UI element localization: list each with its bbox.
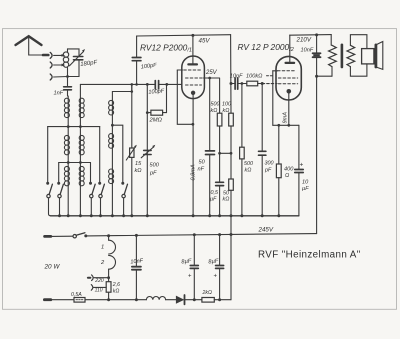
- svg-text:µF: µF: [210, 197, 217, 203]
- svg-text:25V: 25V: [205, 70, 218, 76]
- switch S5: [121, 182, 124, 185]
- svg-text:0,9mA: 0,9mA: [191, 164, 197, 180]
- node screen U1: [208, 77, 211, 80]
- capacitor 10µF: [298, 125, 300, 169]
- svg-text:kΩ: kΩ: [211, 108, 218, 114]
- svg-text:9mA: 9mA: [283, 112, 289, 124]
- capacitor 100pF feedback: [136, 36, 138, 57]
- choke coil: [146, 297, 165, 300]
- tap 110V: [91, 285, 93, 291]
- antenna coil L1: [67, 49, 69, 52]
- resistor 500kΩ grid leak: [241, 84, 243, 148]
- svg-text:110: 110: [95, 288, 103, 294]
- node ant junction: [66, 75, 69, 78]
- potentiometer 15kΩ: [131, 84, 133, 215]
- wire grid3 elbow U2: [272, 71, 274, 126]
- transformer T1 secondary: [347, 45, 355, 66]
- capacitor 300pF: [261, 84, 263, 152]
- wire node153: [220, 152, 231, 154]
- diode D1: [176, 296, 184, 304]
- top rail 210V: [290, 34, 331, 37]
- oscillator coil column: [111, 92, 113, 216]
- tap 220V: [88, 277, 91, 279]
- svg-text:+: +: [214, 274, 218, 280]
- svg-text:2: 2: [100, 260, 105, 266]
- resistor 100kΩ grid stopper: [247, 81, 258, 86]
- svg-text:8µF: 8µF: [208, 258, 219, 265]
- coupling wire: [230, 82, 233, 85]
- resistor 2,6kΩ: [106, 282, 111, 293]
- coil column right (grid winding): [79, 84, 81, 215]
- svg-text:20 W: 20 W: [44, 264, 61, 271]
- mains plug: [45, 235, 51, 238]
- wire cathode U2: [288, 91, 290, 125]
- svg-text:pF: pF: [264, 168, 272, 174]
- wire B+ riser: [316, 58, 318, 234]
- resistor 2kΩ: [202, 298, 214, 303]
- svg-text:RV 12 P 2000/2: RV 12 P 2000/2: [238, 42, 294, 53]
- svg-text:1nF: 1nF: [54, 91, 64, 97]
- wire S2 feed: [58, 163, 60, 183]
- svg-text:15: 15: [135, 161, 142, 167]
- wire S1 feed: [47, 127, 49, 182]
- svg-text:180pF: 180pF: [80, 60, 98, 68]
- trimmer capacitor 180pF: [74, 56, 83, 58]
- switch S3: [89, 182, 92, 185]
- heater element: [108, 236, 110, 241]
- variable capacitor 500pF: [146, 84, 148, 215]
- capacitor 1nF: [67, 77, 69, 87]
- capacitor 0,5µF: [216, 181, 224, 183]
- svg-text:kΩ: kΩ: [223, 108, 230, 114]
- speaker: [362, 49, 374, 64]
- bottom rail plug: [44, 298, 50, 301]
- capacitor 50nF: [209, 78, 211, 151]
- svg-text:50: 50: [199, 160, 206, 166]
- svg-text:µF: µF: [302, 186, 309, 192]
- svg-text:RV12 P2000/1: RV12 P2000/1: [140, 43, 192, 54]
- svg-text:1: 1: [101, 245, 104, 251]
- power switch: [73, 235, 76, 238]
- svg-text:10nF: 10nF: [301, 48, 314, 54]
- wire cathode U1: [192, 93, 194, 216]
- grid wire: [80, 83, 154, 85]
- transformer core: [341, 45, 344, 67]
- resistor 2MΩ: [146, 111, 149, 114]
- svg-text:10nF: 10nF: [130, 258, 144, 265]
- svg-text:500: 500: [244, 161, 253, 167]
- svg-text:220: 220: [94, 278, 104, 284]
- wire grid3 elbow: [177, 70, 193, 124]
- svg-text:+: +: [188, 274, 192, 280]
- jack J3: [50, 74, 52, 80]
- tube U1 RV12 P2000: [182, 56, 205, 99]
- capacitor 100pF grid series: [154, 81, 156, 89]
- resistor 50kΩ: [229, 179, 234, 190]
- svg-text:nF: nF: [198, 167, 205, 173]
- svg-text:0,5: 0,5: [211, 190, 219, 196]
- wire S3 feed: [90, 163, 92, 183]
- capacitor 10nF mains: [135, 235, 137, 266]
- svg-text:100pF: 100pF: [141, 63, 158, 71]
- svg-text:500: 500: [150, 163, 160, 169]
- svg-text:pF: pF: [149, 171, 157, 177]
- svg-text:45V: 45V: [199, 38, 211, 45]
- wire S5 feed: [112, 125, 122, 182]
- svg-text:kΩ: kΩ: [245, 168, 252, 174]
- svg-text:Ω: Ω: [285, 173, 290, 179]
- wire osc top elbow: [112, 91, 131, 93]
- trimmer frame: [68, 49, 80, 56]
- resistor 100kΩ plate: [230, 35, 232, 114]
- svg-text:10nF: 10nF: [230, 74, 243, 80]
- wire 245V line: [86, 234, 317, 236]
- svg-text:kΩ: kΩ: [135, 168, 143, 174]
- svg-text:kΩ: kΩ: [223, 197, 230, 203]
- antenna: [16, 36, 42, 45]
- jack J2: [50, 62, 52, 68]
- svg-text:+: +: [300, 162, 304, 169]
- svg-text:2,6: 2,6: [112, 282, 120, 288]
- svg-text:210V: 210V: [296, 37, 312, 44]
- transformer T1 primary: [330, 35, 332, 46]
- ground bus: [51, 215, 299, 217]
- svg-text:RVF "Heinzelmann A": RVF "Heinzelmann A": [258, 250, 361, 261]
- svg-text:2MΩ: 2MΩ: [149, 118, 163, 124]
- svg-text:245V: 245V: [258, 227, 274, 234]
- svg-text:500: 500: [211, 102, 220, 108]
- capacitor 10nF coupling: [234, 78, 236, 89]
- capacitor 8µF first: [193, 235, 195, 265]
- resistor 500kΩ screen: [219, 78, 221, 113]
- svg-text:100pF: 100pF: [148, 88, 165, 95]
- resistor 400Ω cathode: [278, 125, 280, 164]
- svg-text:8µF: 8µF: [181, 258, 192, 265]
- svg-text:10: 10: [302, 180, 309, 186]
- fuse 0,5A: [74, 298, 85, 303]
- svg-text:100: 100: [222, 102, 231, 108]
- capacitor 10nF anode: [316, 35, 318, 53]
- svg-text:100kΩ: 100kΩ: [246, 74, 263, 80]
- svg-text:2kΩ: 2kΩ: [202, 290, 212, 296]
- jack J1 antenna: [50, 52, 52, 58]
- wire tap line 2: [59, 162, 91, 164]
- node osc tap: [111, 124, 114, 127]
- tube U2 RV12 P2000: [276, 56, 301, 100]
- bus junction dots: [58, 214, 280, 217]
- top rail 45V: [137, 35, 231, 36]
- svg-text:300: 300: [265, 161, 274, 167]
- wire mains to switch: [51, 235, 73, 237]
- switch S2: [57, 182, 60, 185]
- switch S1: [46, 182, 49, 185]
- coil column left (antenna tuning): [67, 96, 69, 216]
- svg-text:kΩ: kΩ: [113, 289, 120, 295]
- svg-text:0,5A: 0,5A: [71, 292, 82, 298]
- svg-text:400: 400: [284, 167, 294, 173]
- capacitor 8µF second: [219, 235, 221, 266]
- wire tap line 1: [48, 126, 100, 128]
- switch S4: [98, 182, 101, 185]
- wire S4 feed: [99, 127, 101, 182]
